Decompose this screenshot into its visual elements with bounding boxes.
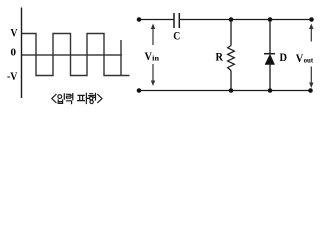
waveform vertical axis: [21, 8, 23, 99]
Vin lower arrow: [151, 64, 155, 86]
diode D top lead: [269, 20, 271, 54]
left angle bracket: [52, 95, 56, 103]
capacitor C plates: [173, 13, 175, 28]
node dot top resistor: [229, 17, 234, 22]
extra rising edge at end of wave: [120, 40, 122, 76]
hangul 파: [78, 95, 85, 100]
caption: input waveform korean text: [52, 93, 102, 103]
svg-text:D: D: [280, 50, 288, 64]
resistor R top lead: [230, 20, 232, 46]
hangul 형: [89, 94, 94, 96]
node dot top diode: [268, 17, 273, 22]
svg-text:-V: -V: [7, 69, 18, 83]
resistor R zigzag: [228, 46, 235, 71]
bottom wire: [139, 90, 311, 92]
Vin upper arrow: [151, 24, 155, 46]
svg-text:out: out: [304, 56, 314, 65]
node dot top-right: [309, 17, 314, 22]
svg-text:in: in: [152, 54, 160, 63]
svg-text:V: V: [145, 49, 153, 63]
diode D cathode bar: [264, 53, 275, 55]
right angle bracket: [98, 95, 102, 103]
diode D bottom lead: [269, 65, 271, 91]
node dot bottom-right: [308, 88, 313, 93]
svg-text:R: R: [216, 50, 224, 64]
hangul 력: [67, 94, 71, 98]
node dot bottom-left: [137, 88, 142, 93]
svg-text:0: 0: [11, 48, 17, 59]
top wire right segment (capacitor to output node): [180, 19, 312, 21]
svg-text:C: C: [173, 31, 180, 43]
hangul 입: [58, 95, 62, 99]
square wave trace: [22, 34, 130, 76]
svg-text:V: V: [11, 26, 18, 40]
diode D triangle (anode, pointing up): [265, 54, 275, 64]
waveform zero line (time axis): [22, 54, 123, 56]
svg-text:V: V: [296, 51, 304, 65]
resistor R bottom lead: [230, 71, 232, 91]
node dot bottom diode: [268, 88, 273, 93]
top wire left segment (node A to capacitor): [139, 19, 174, 21]
Vout upper arrow: [309, 24, 313, 42]
Vout lower arrow: [309, 67, 313, 89]
node dot top-left: [137, 17, 142, 22]
node dot bottom resistor: [229, 88, 234, 93]
